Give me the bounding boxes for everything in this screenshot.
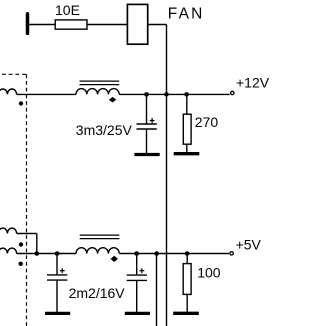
svg-text:270: 270	[195, 114, 219, 130]
svg-text:10E: 10E	[55, 2, 80, 18]
svg-text:2m2/16V: 2m2/16V	[69, 285, 126, 301]
svg-text:100: 100	[197, 264, 221, 280]
svg-text:FAN: FAN	[168, 5, 205, 22]
svg-text:+5V: +5V	[236, 236, 262, 252]
svg-text:+12V: +12V	[236, 75, 270, 91]
svg-text:3m3/25V: 3m3/25V	[76, 122, 133, 138]
